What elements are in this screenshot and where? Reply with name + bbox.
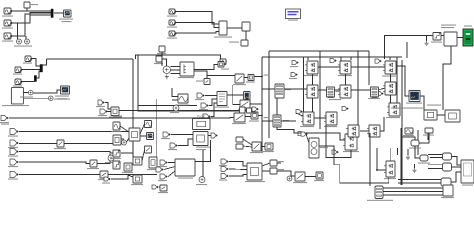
svg-text:Pump: Pump: [197, 115, 206, 119]
